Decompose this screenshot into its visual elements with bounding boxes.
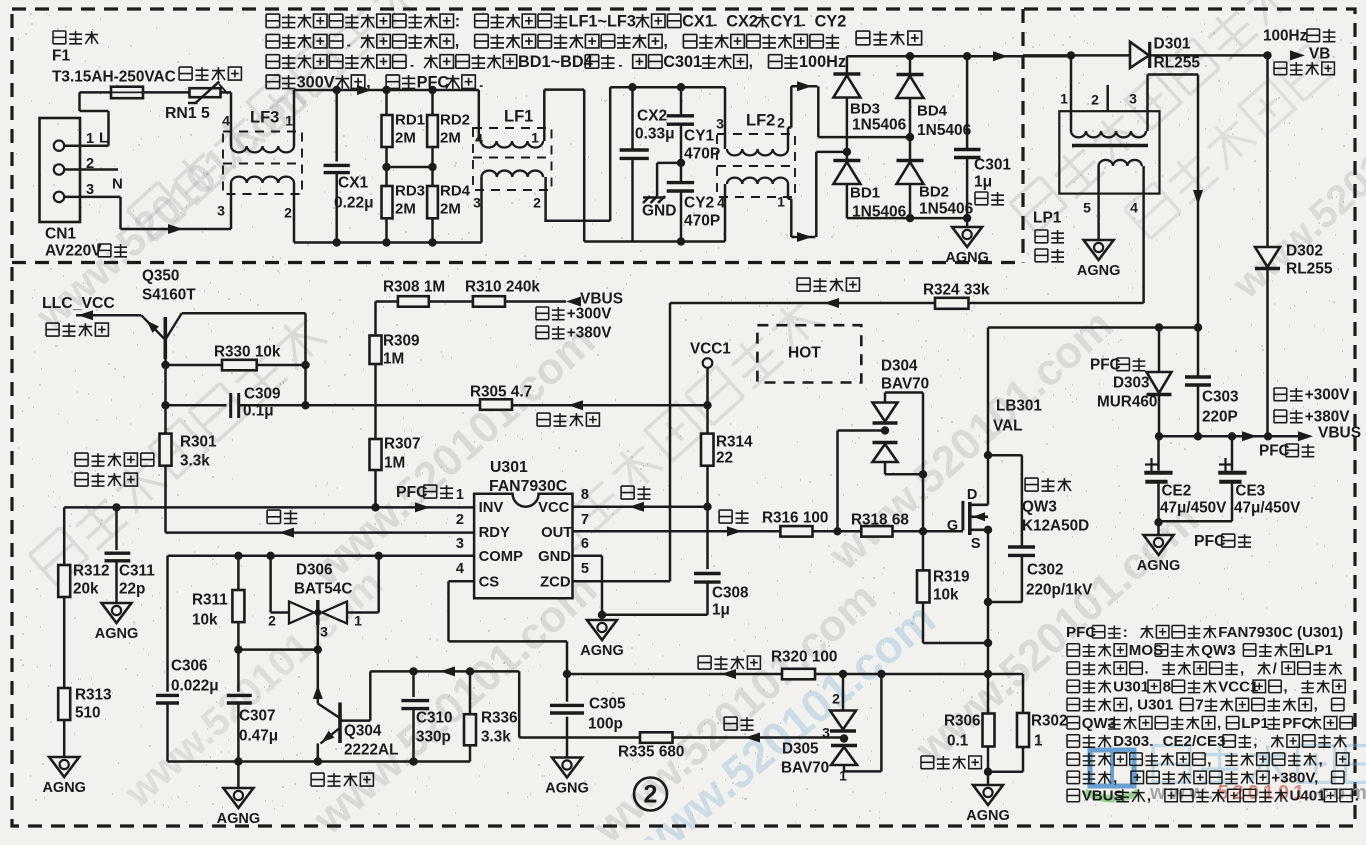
svg-text:,: ,	[1147, 788, 1151, 805]
resistor R301	[160, 434, 172, 466]
resistor R309	[374, 302, 377, 336]
svg-text:2: 2	[644, 781, 658, 809]
capacitor C306	[166, 556, 169, 692]
wire VCC supply pin8	[573, 505, 708, 508]
svg-text:RD1: RD1	[395, 111, 425, 128]
svg-text:47μ/450V: 47μ/450V	[1234, 500, 1301, 517]
transistor Q350	[76, 314, 141, 317]
svg-text:3: 3	[1129, 91, 1137, 107]
wire bottom rail CX2 to LF2 pin4	[584, 240, 725, 243]
svg-text:BD2: BD2	[919, 183, 949, 200]
svg-text:AGNG: AGNG	[217, 811, 261, 827]
svg-text:FAN7930C (U301): FAN7930C (U301)	[1218, 624, 1343, 641]
svg-text:D: D	[967, 487, 977, 503]
svg-text:AGNG: AGNG	[945, 250, 989, 266]
svg-text:CX1: CX1	[338, 175, 369, 192]
svg-text:,: ,	[1217, 715, 1221, 732]
svg-text:U401: U401	[1290, 788, 1326, 805]
svg-text:510: 510	[75, 705, 101, 722]
resistor R319	[922, 531, 925, 570]
svg-text::: :	[1123, 624, 1128, 641]
svg-text:,: ,	[1207, 751, 1211, 768]
resistor R316	[780, 526, 812, 537]
capacitor CE3	[1231, 436, 1234, 470]
thermistor RN1	[190, 88, 221, 97]
HOT dashed box	[757, 325, 861, 382]
ground AGNG C305	[552, 758, 582, 778]
svg-text:D302: D302	[1286, 243, 1323, 260]
svg-text:4: 4	[222, 113, 230, 129]
svg-text:RL255: RL255	[1154, 55, 1201, 72]
transistor QW3 MOSFET	[923, 530, 963, 533]
wire LP1 pin2 stub	[1106, 85, 1109, 111]
svg-text:AGNG: AGNG	[1137, 558, 1181, 574]
svg-text:CY1: CY1	[684, 128, 715, 145]
svg-text:,: ,	[1113, 770, 1117, 787]
svg-text:OUT: OUT	[541, 525, 572, 541]
wire VBUS output	[1159, 435, 1307, 438]
label switch	[267, 510, 297, 523]
svg-text:0.1: 0.1	[947, 733, 969, 750]
wire D301 to VB	[1150, 54, 1268, 57]
label standby 300V	[1274, 388, 1303, 401]
capacitor CX2	[631, 87, 634, 150]
svg-text:C301: C301	[663, 53, 702, 71]
svg-text:8: 8	[581, 487, 589, 503]
svg-text:LP1: LP1	[1241, 715, 1269, 732]
svg-text:+380V,: +380V,	[1271, 770, 1318, 787]
svg-text:S: S	[971, 536, 981, 552]
label bridge title	[856, 31, 922, 45]
svg-text:LF2: LF2	[746, 112, 775, 130]
svg-text:C302: C302	[1027, 562, 1064, 579]
svg-text:CX2: CX2	[637, 108, 667, 125]
svg-text:1N5406: 1N5406	[917, 122, 972, 139]
svg-text:, U301: , U301	[1129, 697, 1173, 714]
svg-text:C311: C311	[119, 563, 155, 580]
svg-text:100p: 100p	[588, 716, 623, 733]
svg-text:R316 100: R316 100	[762, 510, 828, 527]
common-mode choke LF3	[223, 132, 302, 195]
resistor R324	[935, 298, 969, 309]
label fuse	[53, 31, 98, 44]
svg-text:VB: VB	[1309, 46, 1330, 63]
svg-text:BD1~BD4: BD1~BD4	[518, 53, 593, 71]
svg-text:RN1 5: RN1 5	[165, 105, 210, 122]
label zero-cross detect	[797, 278, 859, 291]
svg-text:R319: R319	[933, 569, 970, 586]
svg-text:R308 1M: R308 1M	[383, 279, 445, 296]
svg-text:,: ,	[1240, 660, 1244, 677]
svg-text:3: 3	[473, 195, 481, 211]
svg-text:,: ,	[749, 53, 754, 71]
wire LP1 pin5 to ground	[1097, 166, 1100, 240]
wire ZCD pin5	[573, 580, 671, 583]
wire into PFC box	[1023, 54, 1130, 57]
wire feedback to R335	[518, 671, 521, 737]
resistor RD2	[431, 90, 434, 115]
svg-text:1: 1	[354, 613, 362, 629]
section divider dashed	[12, 261, 1023, 264]
svg-text:,: ,	[1319, 751, 1323, 768]
svg-text:D306: D306	[296, 562, 333, 579]
svg-text:F1: F1	[52, 48, 70, 65]
resistor R306	[987, 674, 990, 714]
svg-text:470P: 470P	[684, 146, 720, 163]
resistor R312	[63, 507, 66, 565]
svg-text:7: 7	[581, 512, 589, 528]
label main supply ctl1	[75, 453, 154, 466]
svg-text:1M: 1M	[383, 351, 404, 368]
svg-text:AGNG: AGNG	[580, 643, 624, 659]
svg-text:0.022μ: 0.022μ	[171, 678, 219, 695]
svg-text:4: 4	[1130, 200, 1138, 216]
svg-text:2: 2	[1091, 92, 1099, 108]
wire CS pin4	[449, 580, 475, 583]
svg-text:R336: R336	[481, 710, 518, 727]
label switch tube	[1025, 478, 1071, 491]
svg-text:6: 6	[581, 536, 589, 552]
svg-text:2: 2	[268, 613, 276, 629]
resistor R314	[706, 405, 709, 433]
node bridge AC2	[843, 148, 851, 156]
svg-text:CX1: CX1	[682, 12, 714, 30]
svg-text:100Hz: 100Hz	[1263, 28, 1308, 45]
svg-text:U301: U301	[490, 459, 528, 476]
svg-text:U301: U301	[1113, 679, 1149, 696]
ground AGNG left	[49, 757, 79, 777]
wire Q350 base chain	[164, 359, 167, 434]
svg-text:,: ,	[1253, 733, 1257, 750]
svg-text:R312: R312	[73, 563, 110, 580]
node CY1/CY2 mid to GND	[677, 159, 685, 167]
diode BD2	[897, 159, 924, 162]
capacitor CY1	[680, 87, 683, 116]
svg-text:BAT54C: BAT54C	[294, 581, 352, 598]
svg-text:,: ,	[455, 33, 460, 51]
svg-text:3: 3	[822, 725, 830, 741]
ground AGNG bridge	[966, 218, 969, 227]
wire LF1 pin4	[478, 90, 481, 141]
svg-text:GND: GND	[538, 549, 571, 565]
wire top rail CX2/CY1	[610, 86, 725, 89]
svg-text:2: 2	[533, 195, 541, 211]
resistor RD1	[385, 90, 388, 115]
wire bridge bottom rail	[847, 217, 967, 220]
resistor R335	[640, 732, 673, 743]
label current-limit resistor	[179, 67, 241, 80]
svg-text:C305: C305	[589, 696, 626, 713]
label overcurrent protect	[698, 656, 760, 669]
diode D305 dual BAV70	[842, 674, 845, 711]
capacitor C310	[412, 671, 415, 697]
transistor Q304	[317, 650, 320, 704]
wire QW3 source chain	[987, 530, 990, 674]
svg-text:LP1: LP1	[1033, 210, 1062, 227]
resistor R311	[237, 556, 240, 590]
svg-text:C303: C303	[1202, 389, 1239, 406]
svg-text:2: 2	[284, 205, 292, 221]
wire COMP line pin3	[168, 555, 475, 558]
wire Q350 collector top	[182, 312, 306, 315]
svg-text:AGNG: AGNG	[545, 781, 589, 797]
resistor R310	[473, 296, 505, 307]
svg-text:0.33μ: 0.33μ	[635, 126, 675, 143]
watermark bottom-center blue	[620, 592, 945, 845]
label LP1 role1	[1035, 230, 1064, 243]
svg-text:1: 1	[456, 487, 464, 503]
wire LF1 pin1 crossover	[543, 90, 546, 141]
wire LF2 pin4 to bottom rail	[724, 184, 727, 242]
svg-text:R320 100: R320 100	[771, 649, 837, 666]
svg-text:3.3k: 3.3k	[481, 729, 511, 746]
wire drive line R305	[306, 404, 481, 407]
svg-text:K12A50D: K12A50D	[1022, 518, 1089, 535]
svg-text:QW3: QW3	[1201, 642, 1235, 659]
common-mode choke LF1	[473, 128, 552, 190]
svg-text:1: 1	[839, 768, 847, 784]
capacitor C303	[1197, 328, 1200, 378]
label excite	[719, 510, 748, 523]
wire LP1 pin1	[1070, 55, 1073, 131]
svg-text:T3.15AH-250VAC: T3.15AH-250VAC	[52, 69, 176, 86]
wire bottom rail left	[294, 241, 482, 244]
label on2	[536, 326, 565, 339]
svg-text:RL255: RL255	[1286, 261, 1333, 278]
wire Q304 base to feedback node	[340, 719, 370, 722]
svg-text:3: 3	[86, 182, 94, 198]
chassis ground GND	[643, 196, 650, 203]
svg-text:MUR460: MUR460	[1097, 394, 1157, 411]
svg-text:LLC_VCC: LLC_VCC	[42, 295, 115, 312]
capacitor C309	[166, 404, 227, 407]
wire bridge top rail	[847, 55, 1071, 58]
svg-text:+380V: +380V	[1305, 409, 1350, 426]
svg-text:CE2: CE2	[1162, 483, 1192, 500]
resistor R336	[469, 671, 472, 714]
svg-text:,: ,	[1314, 697, 1318, 714]
svg-text:3.3k: 3.3k	[180, 453, 210, 470]
diode D303	[1158, 328, 1161, 373]
svg-text:R310 240k: R310 240k	[465, 279, 540, 296]
svg-text:,: ,	[663, 33, 668, 51]
svg-text:10k: 10k	[192, 612, 218, 629]
svg-text:2M: 2M	[440, 129, 461, 146]
common-mode choke LF2	[717, 134, 795, 197]
svg-text:8: 8	[1163, 679, 1171, 696]
svg-text:BAV70: BAV70	[881, 376, 929, 393]
capacitor C301	[966, 56, 969, 149]
resistor R313	[58, 688, 70, 720]
diode BD4	[909, 56, 912, 218]
svg-text:VCC1: VCC1	[690, 341, 731, 358]
svg-text:R330 10k: R330 10k	[214, 344, 281, 361]
svg-text:1: 1	[285, 113, 293, 129]
capacitor C302	[988, 454, 1022, 457]
capacitor C311	[115, 507, 118, 550]
IC U301 FAN7930C	[474, 494, 572, 599]
svg-text:AGNG: AGNG	[966, 808, 1010, 824]
watermark big blue cjk bottom right	[1153, 746, 1366, 783]
svg-text:2M: 2M	[395, 200, 416, 217]
wire CN1 pin3 N path	[64, 196, 120, 199]
label C301 role	[975, 192, 1004, 205]
wire RDY switch line	[166, 531, 475, 534]
connector CN1	[40, 118, 81, 222]
svg-text:RD3: RD3	[395, 182, 425, 199]
svg-text:AGNG: AGNG	[1077, 263, 1121, 279]
svg-text:AV220V: AV220V	[45, 243, 102, 260]
wire LF1 pin3 to bottom rail	[480, 177, 483, 243]
inductor LP1 transformer	[1059, 111, 1159, 193]
svg-text:LF3: LF3	[250, 109, 279, 127]
svg-text:VBUS: VBUS	[1318, 425, 1361, 442]
svg-text:CS: CS	[479, 575, 500, 591]
svg-text:2M: 2M	[440, 200, 461, 217]
svg-text:GND: GND	[642, 203, 676, 220]
description paragraph top	[266, 14, 453, 28]
svg-text:R314: R314	[716, 434, 753, 451]
capacitor C308	[706, 507, 709, 570]
wire PFC boost node	[988, 326, 1198, 329]
svg-text:CY2: CY2	[684, 195, 714, 212]
label overcurrent sample	[921, 756, 981, 769]
svg-text:0.22μ: 0.22μ	[334, 195, 374, 212]
svg-text:N: N	[112, 175, 123, 192]
label to main power	[46, 323, 108, 336]
wire CN1 pin1 to fuse	[64, 144, 108, 147]
wire D306 pin3 down	[317, 625, 320, 650]
svg-text:ZCD: ZCD	[540, 575, 571, 591]
svg-text:C309: C309	[244, 386, 281, 403]
watermark diagonal texts	[128, 0, 426, 241]
svg-text:C307: C307	[239, 708, 276, 725]
label LP1 role2	[1035, 249, 1064, 262]
svg-text:1M: 1M	[384, 455, 405, 472]
label feedback	[724, 717, 753, 730]
svg-text:VCC: VCC	[538, 500, 570, 516]
svg-text:10k: 10k	[933, 587, 959, 604]
svg-text:220p/1kV: 220p/1kV	[1026, 582, 1093, 599]
svg-text:QW3: QW3	[1022, 499, 1057, 516]
svg-text:1: 1	[1060, 91, 1068, 107]
wire bottom rail PWM	[168, 760, 471, 763]
svg-text:5: 5	[1083, 200, 1091, 216]
svg-text:L: L	[99, 129, 108, 146]
resistor R320	[782, 669, 815, 680]
watermark logo bottom right	[1085, 750, 1139, 799]
svg-text:COMP: COMP	[479, 549, 524, 565]
svg-text:CX2: CX2	[726, 12, 758, 30]
ground AGNG U301	[587, 620, 617, 640]
wire GND pin6	[573, 554, 603, 557]
ground AGNG C311	[102, 603, 132, 623]
svg-text:22: 22	[716, 450, 733, 467]
resistor R307	[370, 439, 382, 470]
svg-text:2: 2	[777, 115, 785, 131]
svg-text:3: 3	[320, 624, 328, 640]
svg-text:2222AL: 2222AL	[344, 742, 398, 759]
svg-text:+300V: +300V	[1305, 387, 1350, 404]
svg-text:CY1: CY1	[771, 12, 803, 30]
svg-text:LP1: LP1	[1305, 642, 1333, 659]
svg-text:R306: R306	[944, 713, 981, 730]
svg-text:S4160T: S4160T	[142, 287, 196, 304]
svg-text:VAL: VAL	[993, 418, 1022, 435]
diode D301	[1130, 42, 1149, 68]
page marker circled 2	[634, 778, 667, 811]
wire LP1 pin3 to PFC node	[1146, 75, 1149, 132]
wire CN1 pin2 stub	[64, 168, 118, 171]
svg-text:1: 1	[531, 130, 539, 146]
wire OUT drive pin7	[573, 530, 781, 533]
svg-text:100Hz: 100Hz	[799, 53, 846, 71]
svg-text:R301: R301	[180, 434, 217, 451]
svg-text:D301: D301	[1154, 36, 1191, 53]
svg-text:G: G	[947, 518, 958, 534]
svg-text:R311: R311	[192, 592, 228, 609]
ground AGNG C307	[237, 762, 240, 789]
svg-text:Q350: Q350	[142, 268, 179, 285]
wire LF2 pin1 to bridge AC2	[787, 184, 790, 199]
capacitor CE2	[1157, 436, 1160, 470]
svg-text:BD3: BD3	[850, 100, 880, 117]
svg-text:1N5406: 1N5406	[852, 117, 907, 134]
wire LB301 drain feed	[987, 328, 990, 505]
wire LF1 pin2 crossover	[544, 177, 547, 221]
svg-text:C308: C308	[712, 585, 749, 602]
wire top rail LF3 to LF1	[294, 89, 479, 92]
svg-text:0.47μ: 0.47μ	[239, 728, 278, 745]
svg-text:D303: D303	[1113, 733, 1149, 750]
svg-text:47μ/450V: 47μ/450V	[1160, 500, 1227, 517]
label on 380V	[1274, 410, 1303, 423]
svg-text:BD4: BD4	[917, 102, 948, 119]
svg-text:Q304: Q304	[344, 723, 382, 740]
svg-text:330p: 330p	[416, 729, 451, 746]
svg-text:RDY: RDY	[479, 525, 510, 541]
svg-text:www.520101.com: www.520101.com	[1149, 782, 1366, 804]
svg-text:INV: INV	[479, 500, 504, 516]
svg-text:3: 3	[456, 536, 464, 552]
svg-text:R305 4.7: R305 4.7	[470, 384, 532, 401]
wire LF2 pin2 to bridge AC1	[787, 128, 790, 150]
svg-text:R324 33k: R324 33k	[923, 282, 990, 299]
wire LF2 pin3 from top rail	[724, 87, 727, 149]
svg-text:R318 68: R318 68	[851, 512, 909, 529]
diode BD1	[833, 159, 860, 162]
resistor R308	[376, 300, 398, 303]
svg-text:D304: D304	[881, 358, 918, 375]
svg-text:HOT: HOT	[788, 345, 821, 362]
node bridge AC1	[906, 133, 914, 141]
resistor RD3	[385, 167, 388, 186]
svg-text:4: 4	[456, 561, 464, 577]
svg-text:CY2: CY2	[815, 12, 847, 30]
svg-text:220P: 220P	[1202, 409, 1238, 426]
svg-text:7: 7	[1195, 697, 1203, 714]
svg-text:RD2: RD2	[440, 111, 470, 128]
capacitor CX1	[335, 90, 338, 162]
label standby2	[536, 307, 565, 320]
svg-text:3: 3	[217, 203, 225, 219]
svg-text:CE2/CE3: CE2/CE3	[1163, 733, 1226, 750]
capacitor C305	[563, 670, 571, 678]
svg-text:C306: C306	[171, 658, 208, 675]
svg-text:BD1: BD1	[850, 184, 880, 201]
svg-text:R309: R309	[383, 333, 420, 350]
svg-text:CE3: CE3	[1235, 483, 1265, 500]
